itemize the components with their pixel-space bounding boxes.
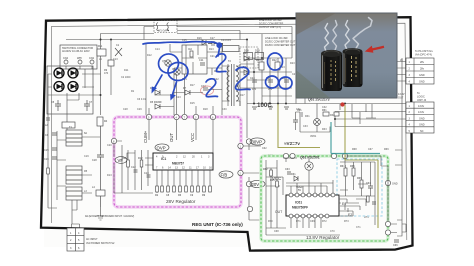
switching connector box J1 <box>60 45 97 69</box>
svg-text:C62: C62 <box>262 147 267 150</box>
olive highlight trace 1 <box>278 104 320 148</box>
svg-text:R62: R62 <box>263 168 268 171</box>
wire left rail <box>48 95 57 208</box>
wire under photo extra <box>296 104 377 130</box>
connector pin CN2 <box>90 60 94 64</box>
blue scribble S large <box>236 67 250 90</box>
svg-text:13.8v: 13.8v <box>418 111 425 114</box>
capacitor C3 <box>52 133 57 135</box>
capacitor C63 <box>287 172 291 174</box>
capacitor C34 under photo <box>293 120 298 122</box>
transformer T1 winding 1 <box>66 130 82 146</box>
svg-text:8A: 8A <box>84 132 87 135</box>
svg-text:D23: D23 <box>290 62 295 65</box>
svg-text:28V Regulator: 28V Regulator <box>166 199 196 204</box>
svg-text:C68: C68 <box>274 230 279 233</box>
capacitor lead right-2 <box>353 18 372 52</box>
svg-text:C29: C29 <box>137 108 142 111</box>
blue scribble 2 upper <box>216 54 226 72</box>
capacitor left label text <box>324 62 326 84</box>
resistor R64 cyan box <box>344 168 347 176</box>
terminal circle green top a <box>283 153 288 158</box>
svg-text:DC/DC CONVERTER OUT: DC/DC CONVERTER OUT <box>265 44 296 47</box>
wire secondary verticals mid <box>222 34 292 138</box>
capacitor C61 <box>300 112 302 117</box>
node dots top <box>100 39 249 97</box>
AC input connector J3 below frame <box>67 228 115 251</box>
capacitor C13 left column <box>147 175 151 177</box>
blue tail after dot <box>218 48 220 56</box>
svg-text:13.8v: 13.8v <box>418 105 425 108</box>
terminal circle pin 8 left <box>111 138 116 143</box>
svg-text:GND: GND <box>392 183 398 186</box>
resistor R22 <box>275 62 280 70</box>
diode D22 <box>244 70 249 75</box>
svg-text:C32: C32 <box>322 106 327 109</box>
connector pin CN4 <box>64 60 68 64</box>
wire 13.8 internal <box>266 158 345 235</box>
svg-text:D61: D61 <box>291 173 296 176</box>
svg-text:C15: C15 <box>44 149 49 152</box>
svg-text:IC2: IC2 <box>188 48 193 51</box>
svg-text:REG UNIT (IC-736 only): REG UNIT (IC-736 only) <box>192 222 243 227</box>
svg-text:R31: R31 <box>305 115 310 118</box>
svg-text:C19: C19 <box>84 155 89 158</box>
svg-text:C17: C17 <box>210 37 215 40</box>
capacitor lead right-1 <box>345 21 350 52</box>
svg-text:C70: C70 <box>330 230 335 233</box>
terminal circle pin 5 <box>146 114 151 119</box>
blue ring E pair <box>279 77 292 89</box>
diode bridge D1 <box>54 68 64 78</box>
diode D5 <box>155 104 160 109</box>
node dots mid <box>253 57 346 120</box>
wire E1 E2 links <box>339 199 353 216</box>
svg-text:R69: R69 <box>384 148 389 151</box>
capacitor C4 on left rail <box>46 118 50 120</box>
terminal circle green right a <box>385 221 390 226</box>
regulator IC61 MB3756PF <box>286 195 339 216</box>
svg-text:R61: R61 <box>322 109 327 112</box>
svg-text:D15: D15 <box>190 102 195 105</box>
capacitor C72 <box>372 202 376 204</box>
svg-text:R73: R73 <box>344 220 349 223</box>
svg-text:R65: R65 <box>350 165 355 168</box>
transformer T1 winding 2 <box>66 166 82 184</box>
svg-text:R72: R72 <box>322 220 327 223</box>
wire into plug box <box>144 27 292 40</box>
resistor row R9 <box>203 186 206 192</box>
cyan dashed box <box>337 159 382 216</box>
svg-text:R11: R11 <box>122 157 127 160</box>
capacitor C66 output <box>394 240 399 242</box>
ground bars secondary <box>252 107 289 109</box>
transistor Q5 <box>165 60 171 66</box>
blue scribble 2 lower <box>206 79 218 97</box>
resistor R66 cyan box <box>360 180 363 188</box>
resistor row R10 <box>209 186 212 192</box>
wire extra secondary rails <box>240 50 302 96</box>
transformer T2 core <box>232 64 235 106</box>
transformer T2 secondary loops <box>236 66 239 101</box>
svg-text:R17: R17 <box>190 84 195 87</box>
electrolytic capacitor right body <box>343 50 363 87</box>
resistor R11 left column <box>127 160 130 167</box>
connector pin WHI <box>78 60 82 64</box>
svg-text:C2 1000: C2 1000 <box>121 76 131 79</box>
IC61 pin circles top <box>289 193 293 197</box>
shield box around rectifier <box>47 66 93 114</box>
wire T1 to AC connector <box>72 200 80 228</box>
svg-text:D18: D18 <box>244 50 249 53</box>
red arrow annotation <box>371 47 384 50</box>
svg-text:5V: 5V <box>298 189 301 192</box>
svg-text:470: 470 <box>104 72 109 75</box>
svg-text:AC240V 10-CB AC 220V: AC240V 10-CB AC 220V <box>62 50 90 53</box>
svg-text:C20: C20 <box>107 144 112 147</box>
svg-text:C69: C69 <box>310 220 315 223</box>
fuse FL1 <box>97 49 106 56</box>
svg-text:C16: C16 <box>44 158 49 161</box>
svg-text:≈V2=7v: ≈V2=7v <box>284 141 300 146</box>
svg-text:W1 GAP4: W1 GAP4 <box>158 30 170 33</box>
svg-text:NC: NC <box>420 130 424 133</box>
svg-text:D19: D19 <box>255 50 260 53</box>
svg-text:R12: R12 <box>138 157 143 160</box>
svg-text:F/B: F/B <box>221 173 228 178</box>
svg-text:C28: C28 <box>123 108 128 111</box>
svg-text:OUT: OUT <box>398 97 404 100</box>
svg-text:VCC: VCC <box>190 133 195 142</box>
faint red circle annotation <box>201 86 214 95</box>
wire magenta to nodes <box>243 144 261 220</box>
terminal circle green right b <box>385 230 390 235</box>
capacitor C5 <box>55 100 61 111</box>
capacitor C23 <box>203 88 208 90</box>
label FB oval <box>219 171 233 178</box>
capacitor C64 cyan box <box>368 186 373 188</box>
transistor Q6 <box>174 69 180 75</box>
wire top bus lower <box>66 39 247 41</box>
blue ring C <box>268 53 283 70</box>
diode bridge D2 <box>68 68 78 78</box>
regulator IC1 MB3757 <box>153 153 213 170</box>
svg-text:C13: C13 <box>113 58 118 61</box>
svg-text:C14: C14 <box>155 48 160 51</box>
diode D21 <box>244 56 249 61</box>
svg-text:C30: C30 <box>222 108 227 111</box>
svg-text:C24: C24 <box>250 77 255 80</box>
svg-text:UNIT J4: UNIT J4 <box>417 99 427 102</box>
capacitor C25 <box>268 80 273 82</box>
svg-text:9A (EXCEPT KEYBOARD INPUT / AC: 9A (EXCEPT KEYBOARD INPUT / AC240V) <box>85 215 134 218</box>
wire T2 taps <box>222 66 240 106</box>
wire pins up <box>149 74 213 153</box>
wire mid-left mesh <box>146 44 222 115</box>
resistor row R5 <box>179 186 182 192</box>
resistor R61 <box>323 112 329 116</box>
wire mains horizontal <box>48 74 101 95</box>
wire L4 down <box>97 207 104 220</box>
svg-text:C21: C21 <box>210 55 215 58</box>
node 20VP <box>246 181 251 186</box>
terminal circle green top b <box>290 153 295 158</box>
wire T1 feed <box>57 114 100 200</box>
resistor row R1 <box>156 186 159 192</box>
resistor R3 on left rail <box>47 168 50 174</box>
wire top bus upper <box>101 34 293 46</box>
svg-text:CUM+: CUM+ <box>143 130 148 143</box>
choke L4 <box>96 190 105 196</box>
svg-text:R68: R68 <box>352 148 357 151</box>
diode D61 <box>294 176 298 181</box>
svg-text:WHI: WHI <box>77 57 82 60</box>
svg-text:D13: D13 <box>107 174 112 177</box>
resistor row R7 <box>191 186 194 192</box>
wire rectifier output <box>67 93 79 114</box>
capacitor C18 <box>97 126 104 207</box>
transformer T1 winding 3 <box>66 187 82 200</box>
28V regulator magenta dashed box <box>114 117 241 207</box>
dashed service plug box W1 <box>154 21 177 33</box>
wire under photo <box>296 98 330 132</box>
resistor R21 <box>259 62 264 70</box>
svg-text:D16: D16 <box>197 37 202 40</box>
resistor R34 under photo <box>334 112 339 116</box>
resistor R4 <box>97 117 103 126</box>
capacitor lead left-2 <box>333 21 338 54</box>
svg-text:R64: R64 <box>340 165 345 168</box>
terminal circle green top d <box>342 153 347 158</box>
resistor row R2 <box>161 186 164 192</box>
terminal circle pin 4 <box>174 114 179 119</box>
diode D16 <box>202 40 206 45</box>
resistor R75 <box>367 196 370 202</box>
svg-text:GND: GND <box>419 124 425 127</box>
diode bridge D3 <box>54 82 64 92</box>
svg-text:VR61: VR61 <box>310 135 317 138</box>
wire cyan box mesh <box>339 162 375 225</box>
transformer T2 primary loops <box>227 66 230 101</box>
capacitor C12 left column <box>134 170 138 172</box>
frame inner thin border <box>52 23 407 240</box>
wire VF link <box>114 141 135 193</box>
svg-text:R22: R22 <box>272 59 277 62</box>
capacitor C26 <box>284 80 289 82</box>
wire cyan extra mesh <box>340 184 368 212</box>
resistor R62 <box>270 170 273 176</box>
zener D7 <box>185 90 190 95</box>
resistor row R4b <box>173 186 176 192</box>
svg-text:AC INPUT: AC INPUT <box>86 238 98 241</box>
svg-text:IC61: IC61 <box>295 201 302 205</box>
svg-text:R70: R70 <box>268 220 273 223</box>
capacitor right label text <box>345 58 347 82</box>
svg-text:MB3756PF: MB3756PF <box>292 206 308 210</box>
connector table J4 to logic unit <box>406 102 434 133</box>
olive highlight trace 3 <box>345 160 378 228</box>
svg-text:E2: E2 <box>348 213 352 217</box>
capacitor C1 <box>115 48 122 56</box>
svg-text:FL1: FL1 <box>98 45 103 48</box>
svg-text:GND: GND <box>419 74 425 77</box>
svg-text:C6 0.01: C6 0.01 <box>137 98 146 101</box>
svg-text:C18: C18 <box>92 159 97 162</box>
svg-text:D17: D17 <box>240 94 245 97</box>
svg-text:MB3757: MB3757 <box>172 162 184 166</box>
wire mid horizontals <box>240 58 406 127</box>
terminal circle pin 3 <box>193 114 198 119</box>
dashed snubber box <box>240 47 258 68</box>
28V regulator magenta glow <box>114 117 241 207</box>
blue arrow 1 <box>154 75 162 89</box>
svg-text:CN4: CN4 <box>63 57 69 60</box>
svg-text:R33: R33 <box>322 128 327 131</box>
wire to output connector J5 <box>391 220 406 236</box>
capacitor C17 <box>208 41 218 46</box>
resistor R14 <box>190 51 193 57</box>
resistor R12 left column <box>140 160 143 167</box>
node circle Q60 <box>247 206 252 211</box>
svg-text:D12: D12 <box>147 54 152 57</box>
terminal circle green top c <box>331 153 336 158</box>
frame outer border <box>41 17 413 250</box>
blue ring A around Q5 <box>157 52 181 75</box>
IC61 pin circles bottom <box>289 214 293 218</box>
capacitor C7 <box>84 100 90 111</box>
svg-text:R18: R18 <box>203 108 208 111</box>
svg-text:C31: C31 <box>296 108 301 111</box>
svg-text:C12: C12 <box>131 166 136 169</box>
svg-text:C11: C11 <box>199 59 204 62</box>
capacitor C15 <box>52 148 57 150</box>
resistor row R3 <box>167 186 170 192</box>
resistor row R6 <box>185 186 188 192</box>
diode bridge D4 <box>68 82 78 92</box>
svg-text:E1: E1 <box>342 202 346 206</box>
13.8V regulator green glow <box>261 156 388 241</box>
label VF oval <box>115 157 127 164</box>
wire right rail <box>395 58 402 220</box>
node 30VP <box>246 139 251 144</box>
svg-text:C71: C71 <box>356 226 361 229</box>
svg-text:OUT: OUT <box>275 210 282 214</box>
capacitor C11 <box>200 63 205 65</box>
wire hybrid to T2 <box>170 44 222 115</box>
svg-text:R32: R32 <box>330 114 335 117</box>
plug contact P2 <box>167 23 169 31</box>
diode D6 <box>155 90 160 95</box>
svg-text:OUTPUT UNIT (LY): OUTPUT UNIT (LY) <box>259 26 281 29</box>
diode D19 <box>255 53 264 60</box>
svg-text:R63: R63 <box>270 179 275 182</box>
svg-text:R13: R13 <box>209 48 214 51</box>
svg-text:GND: GND <box>419 117 425 120</box>
svg-text:D11: D11 <box>124 69 129 72</box>
red pen dot <box>340 102 344 106</box>
teal highlight trace <box>331 122 380 154</box>
plug contact P1 <box>156 23 158 31</box>
blue wavy wire trace <box>143 42 218 44</box>
electrolytic capacitor left body <box>321 52 342 91</box>
capacitor C9 on bus drop <box>108 60 114 66</box>
svg-text:13.8V Regulator: 13.8V Regulator <box>306 235 340 240</box>
blue arrow 2 <box>172 82 177 96</box>
capacitor C16 <box>52 157 57 159</box>
resistor R65 cyan box <box>352 168 355 176</box>
terminal circle pin 6 <box>210 114 215 119</box>
terminal circle pin 7 <box>182 114 187 119</box>
svg-text:CN2: CN2 <box>89 57 95 60</box>
blue ring B around Q6 <box>168 63 188 81</box>
wire stubs to table J2 <box>397 62 406 82</box>
svg-text:GND: GND <box>419 81 425 84</box>
transistor Q62 <box>314 119 321 126</box>
label OVP oval <box>155 144 169 151</box>
relay box K1 <box>223 46 240 52</box>
svg-text:OUT: OUT <box>169 133 174 142</box>
diode D18 <box>244 53 253 60</box>
blue ring D pair <box>266 76 279 88</box>
IC1 pin stubs <box>145 158 210 186</box>
svg-text:OVP: OVP <box>157 146 166 151</box>
svg-text:Q61 PD2501: Q61 PD2501 <box>300 156 320 160</box>
svg-text:C67: C67 <box>368 148 373 151</box>
photo inset background <box>296 13 397 98</box>
capacitor lead left-1 <box>325 24 329 54</box>
svg-text:VIA (OPC-474): VIA (OPC-474) <box>415 54 432 57</box>
svg-text:470: 470 <box>252 88 257 91</box>
svg-text:D5 RD30F: D5 RD30F <box>150 101 162 104</box>
svg-text:C14 C15: C14 C15 <box>221 39 231 42</box>
svg-text:C66: C66 <box>393 244 398 247</box>
capacitor C24 <box>252 80 257 82</box>
blue dot junction <box>216 42 222 48</box>
svg-text:C13: C13 <box>144 172 149 175</box>
svg-text:VIA POWER SWITCH S2: VIA POWER SWITCH S2 <box>86 242 115 245</box>
svg-text:C33: C33 <box>303 125 308 128</box>
olive highlight trace 2 <box>344 105 346 160</box>
svg-text:30VP: 30VP <box>252 140 263 145</box>
terminal circle green right c <box>385 180 390 185</box>
photo vignette corner <box>296 70 330 98</box>
wire bottom rail 28V <box>122 145 157 193</box>
resistor row R8 <box>197 186 200 192</box>
terminal circle pin 1 right <box>238 143 243 148</box>
resistor R63 <box>276 181 279 187</box>
converter hybrid IC2 <box>182 45 207 74</box>
terminal circle pin 2 right <box>238 170 243 175</box>
wire right edge feeds <box>345 156 388 221</box>
13.8V regulator green dashed box <box>261 156 388 241</box>
choke L2 <box>62 122 75 128</box>
connector table J2 to PA unit <box>406 58 434 84</box>
svg-text:C63: C63 <box>285 168 290 171</box>
svg-text:100C: 100C <box>257 102 272 109</box>
wire vertical feed left <box>66 34 111 116</box>
